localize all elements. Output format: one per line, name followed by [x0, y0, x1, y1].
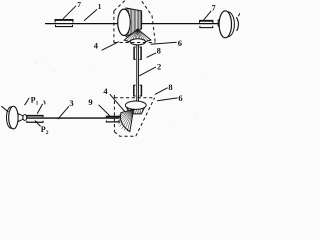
svg-text:1: 1 — [98, 2, 102, 11]
bevel pinion fan on shaft 2 top (hatched) — [124, 29, 151, 43]
leader for label 1 — [84, 9, 97, 20]
bevel gear cone on shaft 1 (hatched) — [126, 8, 142, 37]
leader for label 7 right — [204, 11, 212, 20]
svg-text:4: 4 — [103, 86, 108, 96]
svg-text:6: 6 — [178, 93, 182, 103]
leader for label 2 — [139, 67, 156, 76]
svg-text:2: 2 — [46, 130, 49, 136]
crank handle arc (right wheel) — [236, 17, 238, 31]
bevel pinion bottom face ellipse (shaft 2 top) — [130, 39, 145, 45]
bearing 7 right (on shaft 1) — [199, 21, 214, 28]
arrowhead of P2 leader — [35, 120, 38, 123]
leader P1 to bearing — [37, 104, 42, 114]
dashed housing outline lower (item 6) — [114, 95, 154, 136]
leader for label 8 lower — [155, 88, 168, 95]
bearing 8 lower (on shaft 2) — [134, 85, 142, 97]
svg-text:8: 8 — [168, 82, 172, 92]
bearing 8 upper (on shaft 2) — [134, 47, 141, 60]
leader for label 6 lower — [157, 98, 177, 101]
leader for label 3 — [58, 106, 69, 119]
shaft 2 (vertical shaft) — [137, 45, 139, 102]
scan specks — [35, 58, 222, 125]
leader for label 7 left — [63, 6, 76, 19]
svg-text:9: 9 — [88, 97, 92, 107]
svg-text:1: 1 — [36, 100, 39, 106]
svg-text:7: 7 — [212, 3, 216, 12]
hub cone (left wheel) — [18, 114, 23, 122]
dashed housing outline upper (item 6) — [114, 1, 155, 43]
crank handle (left wheel) — [1, 106, 8, 112]
tick near P1 — [44, 101, 45, 105]
crown bevel gear on shaft 2 bottom (cup) — [125, 101, 146, 114]
svg-text:8: 8 — [157, 46, 161, 56]
handwheel disc (right) — [219, 11, 231, 38]
leader for label 6 upper — [151, 42, 177, 44]
handwheel rim (left) — [7, 107, 16, 128]
leader for label 8 upper — [147, 53, 156, 58]
svg-text:2: 2 — [157, 62, 161, 72]
bearing 9 (right, on shaft 3) — [106, 117, 120, 122]
svg-text:4: 4 — [94, 40, 99, 50]
svg-text:7: 7 — [77, 0, 81, 9]
handwheel rim (right) — [222, 12, 235, 37]
svg-text:6: 6 — [178, 38, 182, 48]
svg-text:3: 3 — [69, 98, 73, 108]
leader P2 — [35, 121, 40, 127]
leader for label 4 lower — [110, 94, 125, 111]
bearing 7 left (on shaft 1) — [55, 20, 74, 27]
crank hook (right wheel) — [238, 13, 240, 17]
handwheel disc (left) — [9, 106, 18, 129]
hub knob (left wheel) — [23, 115, 27, 121]
bevel gear face ellipse on shaft 1 — [118, 9, 131, 35]
shaft 1 (top horizontal shaft) — [45, 23, 222, 25]
hub tick above crown gear (shaft 2) — [133, 100, 138, 102]
bearing left (on shaft 3) — [26, 116, 43, 123]
hub tick (right wheel) — [217, 19, 219, 26]
bevel pinion fan on shaft 3 end (hatched) — [118, 109, 134, 131]
leader for label 4 upper — [102, 42, 119, 51]
force stroke P1 — [25, 98, 30, 105]
leader for label 9 — [99, 105, 110, 116]
shaft 3 (bottom horizontal shaft) — [26, 117, 120, 119]
